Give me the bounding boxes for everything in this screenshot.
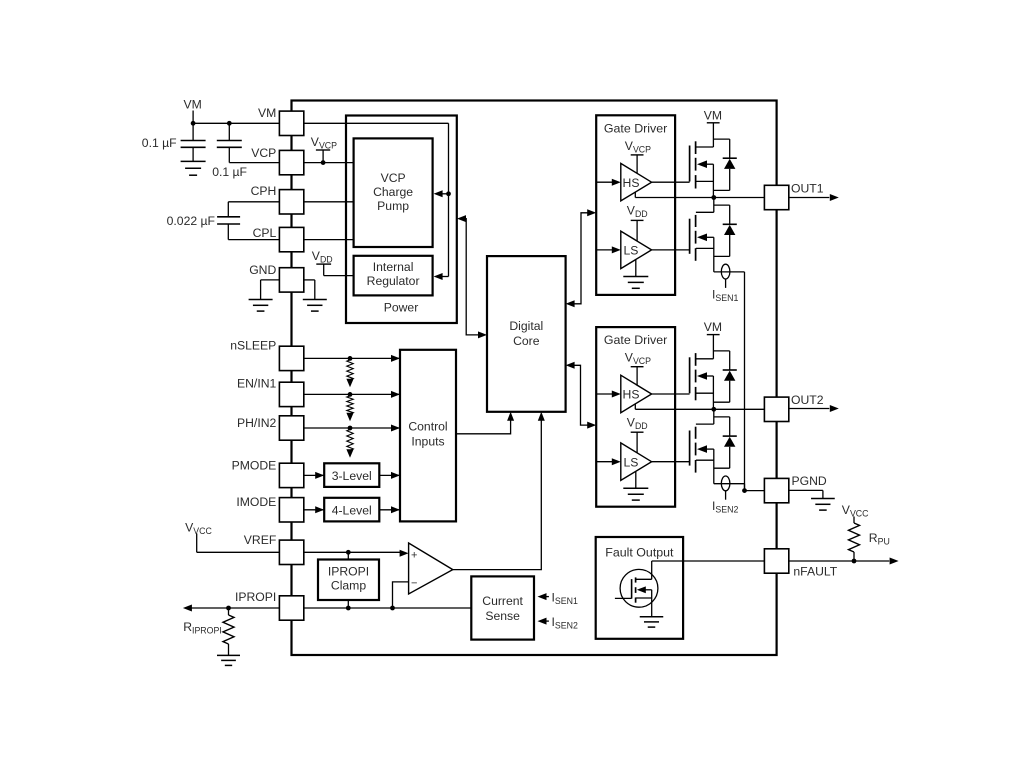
svg-text:VCP: VCP (381, 171, 406, 185)
svg-text:CPH: CPH (251, 184, 277, 198)
svg-text:Digital: Digital (509, 319, 543, 333)
svg-text:4-Level: 4-Level (332, 503, 372, 517)
svg-text:Control: Control (408, 420, 447, 434)
svg-text:Pump: Pump (377, 199, 409, 213)
svg-text:0.1 µF: 0.1 µF (212, 165, 247, 179)
svg-text:0.1 µF: 0.1 µF (142, 136, 177, 150)
svg-text:Gate Driver: Gate Driver (604, 121, 667, 135)
svg-text:VM: VM (704, 108, 722, 122)
svg-text:IMODE: IMODE (236, 495, 276, 509)
svg-text:nFAULT: nFAULT (793, 564, 837, 578)
svg-text:PGND: PGND (792, 474, 827, 488)
svg-text:3-Level: 3-Level (332, 469, 372, 483)
svg-text:Gate Driver: Gate Driver (604, 333, 667, 347)
svg-text:−: − (411, 577, 417, 589)
svg-text:nSLEEP: nSLEEP (230, 338, 276, 352)
svg-text:GND: GND (249, 263, 276, 277)
svg-text:PMODE: PMODE (232, 458, 277, 472)
svg-text:HS: HS (623, 388, 640, 402)
svg-text:+: + (411, 549, 417, 561)
svg-text:LS: LS (624, 455, 639, 469)
svg-text:LS: LS (624, 244, 639, 258)
svg-text:IPROPI: IPROPI (328, 565, 369, 579)
svg-text:PH/IN2: PH/IN2 (237, 416, 277, 430)
svg-text:VREF: VREF (244, 533, 277, 547)
svg-text:IPROPI: IPROPI (235, 590, 276, 604)
svg-text:Sense: Sense (485, 609, 520, 623)
svg-text:Fault Output: Fault Output (605, 546, 674, 560)
svg-text:Core: Core (513, 334, 540, 348)
svg-text:CPL: CPL (253, 226, 277, 240)
svg-text:VCP: VCP (251, 146, 276, 160)
svg-text:VM: VM (258, 106, 276, 120)
svg-text:OUT1: OUT1 (791, 182, 824, 196)
svg-text:VM: VM (183, 98, 201, 112)
svg-text:Clamp: Clamp (331, 579, 366, 593)
svg-text:Power: Power (384, 301, 419, 315)
svg-text:Regulator: Regulator (367, 274, 420, 288)
svg-text:HS: HS (623, 176, 640, 190)
svg-text:0.022 µF: 0.022 µF (167, 214, 215, 228)
svg-text:Inputs: Inputs (411, 435, 444, 449)
svg-text:VM: VM (704, 320, 722, 334)
svg-text:OUT2: OUT2 (791, 393, 824, 407)
svg-text:EN/IN1: EN/IN1 (237, 377, 277, 391)
svg-text:Charge: Charge (373, 185, 413, 199)
svg-text:Current: Current (482, 594, 523, 608)
svg-text:Internal: Internal (373, 260, 414, 274)
